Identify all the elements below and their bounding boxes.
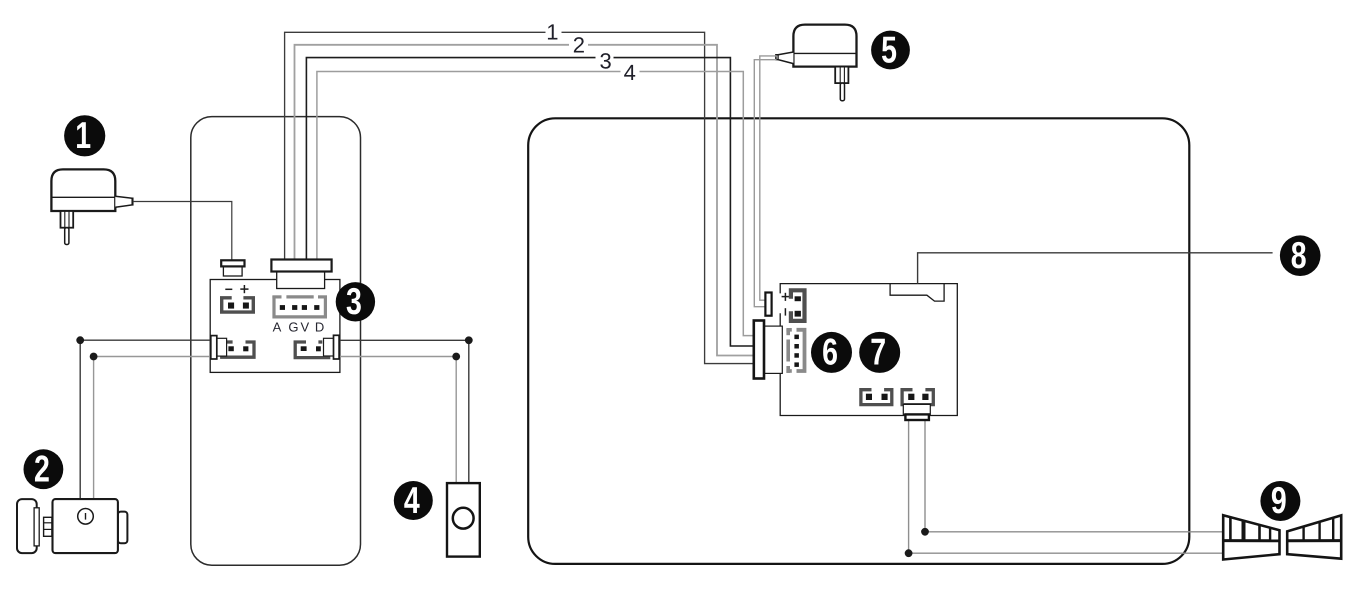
svg-text:1: 1 [75, 114, 91, 156]
svg-text:2: 2 [34, 448, 50, 490]
door PCB right plug tab [324, 335, 340, 359]
wire from adapter 1 to door station [133, 202, 232, 262]
svg-text:8: 8 [1291, 234, 1307, 276]
svg-text:9: 9 [1271, 479, 1287, 521]
speaker right horn [1287, 515, 1341, 558]
monitor plus minus labels [782, 293, 790, 316]
monitor plug bar [754, 321, 764, 379]
monitor bottom connector B [902, 390, 933, 405]
monitor 2-pin power connector [791, 290, 805, 321]
svg-text:D: D [315, 319, 324, 334]
door PCB power jack [221, 260, 244, 276]
svg-text:3: 3 [599, 48, 611, 73]
wire door to camera gray [94, 357, 213, 501]
wire label 4 [624, 60, 636, 85]
svg-text:3: 3 [346, 280, 362, 322]
monitor 4-pin connector [786, 329, 804, 373]
wire 4 [317, 72, 756, 336]
svg-text:G: G [288, 319, 298, 334]
camera [17, 499, 127, 553]
wire 1 [285, 32, 756, 363]
speaker wire upper [925, 420, 1225, 532]
door PCB board [210, 280, 340, 373]
label circle 5 [871, 28, 910, 70]
svg-text:6: 6 [822, 331, 838, 373]
label circle 4 [394, 479, 433, 521]
monitor PCB notch [890, 284, 944, 302]
svg-text:V: V [300, 319, 309, 334]
door station outline [191, 117, 361, 566]
door PCB right 2-pin connector [295, 342, 330, 358]
monitor DC jack plug [765, 293, 771, 316]
monitor PCB board [780, 284, 957, 416]
svg-text:7: 7 [870, 331, 886, 373]
svg-text:A: A [273, 319, 282, 334]
wire label 3 [599, 48, 611, 73]
monitor outline [528, 118, 1189, 564]
junction dot button gray [452, 353, 460, 361]
AGVD labels [273, 319, 325, 334]
monitor plug white rect [764, 326, 782, 373]
svg-text:4: 4 [404, 479, 420, 521]
svg-text:2: 2 [573, 32, 585, 57]
wire 3 [306, 58, 756, 346]
minus plus labels [225, 285, 248, 293]
label circle 9 [1260, 479, 1300, 521]
monitor bottom plug [903, 404, 930, 420]
door PCB AGVD connector [272, 296, 327, 317]
svg-text:4: 4 [624, 60, 636, 85]
power adapter 1 [51, 169, 132, 244]
adapter 5 wire lower [754, 60, 776, 307]
junction dot camera black [76, 336, 84, 344]
label circle 1 [64, 114, 105, 156]
speaker left horn [1223, 515, 1279, 559]
door PCB 2-pin power connector [222, 298, 254, 312]
label circle 6 [811, 331, 852, 373]
wire door to button black [337, 340, 469, 484]
label circle 7 [859, 331, 900, 373]
wire 2 [295, 45, 757, 356]
junction dot button black [465, 336, 473, 344]
power adapter 5 [776, 25, 857, 101]
svg-text:1: 1 [546, 19, 558, 44]
wire door to button gray [337, 357, 456, 485]
speaker wire lower [909, 420, 1225, 553]
monitor bottom connector A [861, 390, 892, 405]
label circle 2 [24, 448, 64, 490]
wire door to camera black [80, 340, 213, 500]
junction dot speaker upper [921, 528, 929, 536]
label circle 3 [336, 280, 375, 322]
wire label 1 [546, 19, 558, 44]
door PCB left 2-pin connector [220, 342, 254, 357]
wire monitor to 8 [918, 253, 1273, 284]
door PCB left plug tab [211, 336, 227, 359]
door button [447, 483, 480, 556]
junction dot speaker lower [905, 549, 913, 557]
adapter 5 wire upper [760, 56, 777, 300]
junction dot camera gray [90, 353, 98, 361]
wire label 2 [573, 32, 585, 57]
label circle 8 [1280, 234, 1321, 276]
door PCB wide connector [271, 260, 331, 289]
svg-text:5: 5 [881, 28, 897, 70]
